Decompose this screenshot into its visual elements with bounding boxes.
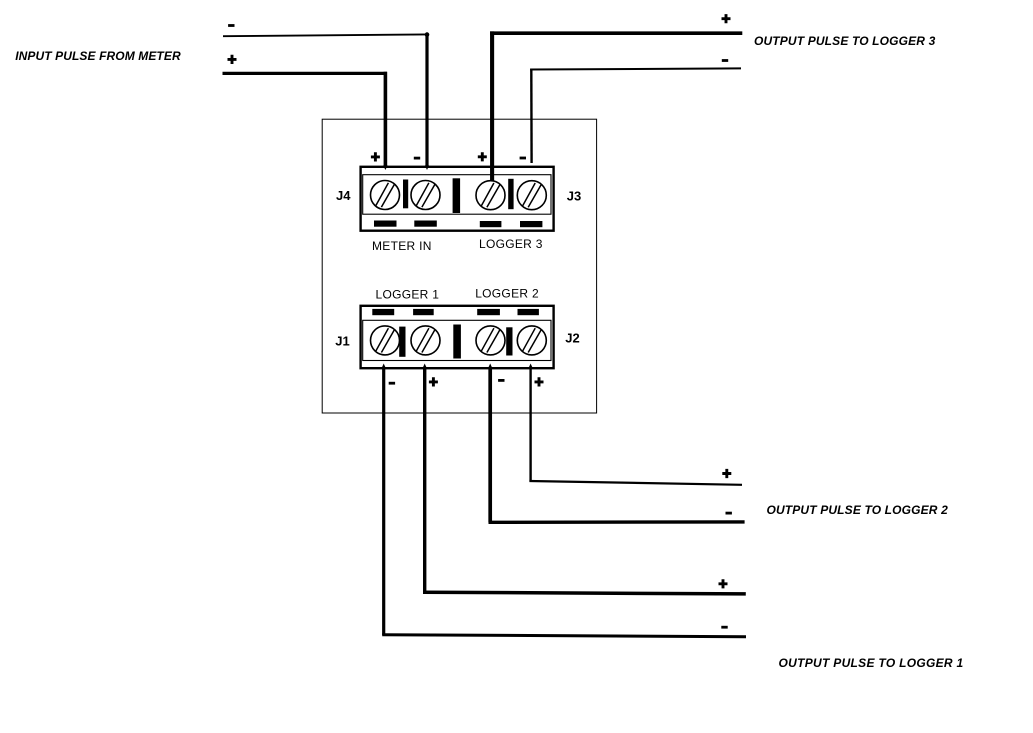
divider bar center (top block): [453, 178, 461, 213]
svg-text:INPUT PULSE FROM METER: INPUT PULSE FROM METER: [15, 49, 181, 63]
polarity: J3 plus: [478, 152, 487, 161]
polarity: logger2 output minus: [726, 512, 732, 515]
polarity: J2 plus: [535, 377, 544, 386]
polarity: logger3 output plus: [722, 14, 731, 23]
svg-text:LOGGER 1: LOGGER 1: [376, 287, 440, 301]
wire: output to logger 1 plus: [423, 368, 746, 594]
polarity: J2 minus: [498, 379, 504, 382]
svg-text:J1: J1: [335, 333, 349, 348]
terminal block J4/J3 body: [361, 167, 554, 231]
svg-text:LOGGER 2: LOGGER 2: [475, 286, 539, 300]
polarity: J4 plus: [371, 152, 380, 161]
wire: meter input plus: [223, 72, 388, 167]
terminal head bar J2 minus: [477, 309, 500, 315]
divider bar J4: [403, 180, 408, 209]
polarity: J1 plus: [429, 377, 438, 386]
terminal screw J3 plus: [476, 181, 505, 210]
polarity: logger2 output plus: [722, 469, 731, 478]
terminal head bar J1 minus: [372, 309, 394, 315]
wire: output to logger 1 minus: [382, 368, 746, 637]
wire stub: logger1 plus out of J1: [422, 364, 427, 370]
svg-text:OUTPUT PULSE TO LOGGER 3: OUTPUT PULSE TO LOGGER 3: [754, 34, 936, 48]
enclosure outline: [322, 119, 596, 413]
polarity: logger1 output plus: [719, 579, 728, 588]
terminal screw J3 minus: [517, 181, 546, 210]
wire: output to logger 3 plus: [490, 31, 742, 181]
svg-text:J2: J2: [565, 331, 579, 346]
polarity: input minus: [228, 24, 234, 27]
wire: output to logger 3 minus: [530, 68, 741, 163]
wire stub: logger1 minus out of J1: [381, 364, 386, 370]
terminal head bar J1 plus: [413, 309, 434, 315]
svg-text:OUTPUT PULSE TO LOGGER 2: OUTPUT PULSE TO LOGGER 2: [767, 503, 949, 517]
polarity: logger3 output minus: [722, 59, 728, 62]
terminal foot bar J3 plus: [480, 221, 502, 227]
wire: output to logger 2 minus: [489, 368, 745, 522]
polarity: input plus: [228, 55, 237, 64]
terminal screw J2 plus: [517, 326, 546, 355]
terminal screw J1 plus: [411, 326, 440, 355]
divider bar J2: [506, 327, 512, 355]
wire: output to logger 2 plus: [529, 368, 742, 485]
wire stub: logger2 minus out of J2: [488, 364, 493, 370]
wire tip: logger3 plus into screw: [490, 167, 494, 182]
terminal block J1/J2 body: [361, 306, 554, 368]
divider bar J1: [399, 327, 405, 357]
wire: meter input minus: [223, 32, 429, 167]
terminal screw J4 minus: [411, 181, 440, 210]
terminal screw J4 plus: [371, 181, 400, 210]
terminal screw J1 minus: [371, 326, 400, 355]
svg-text:J3: J3: [567, 189, 581, 204]
wire stub: logger2 plus out of J2: [528, 364, 533, 370]
terminal screw J2 minus: [476, 326, 505, 355]
svg-text:OUTPUT PULSE TO LOGGER 1: OUTPUT PULSE TO LOGGER 1: [779, 656, 964, 670]
svg-text:J4: J4: [336, 188, 351, 203]
wire stub: meter plus into J4: [383, 165, 387, 170]
polarity: J4 minus: [414, 157, 420, 160]
divider bar J3: [508, 179, 513, 209]
terminal foot bar J4 plus: [374, 221, 397, 227]
polarity: J1 minus: [389, 382, 395, 385]
divider bar center (bottom block): [453, 325, 461, 359]
polarity: logger1 output minus: [721, 626, 727, 629]
svg-text:METER IN: METER IN: [372, 239, 432, 253]
terminal foot bar J3 minus: [520, 221, 542, 227]
polarity: J3 minus: [520, 157, 526, 160]
terminal foot bar J4 minus: [414, 221, 437, 227]
terminal head bar J2 plus: [518, 309, 539, 315]
wire stub: meter minus into J4: [425, 165, 429, 170]
svg-text:LOGGER 3: LOGGER 3: [479, 237, 543, 251]
